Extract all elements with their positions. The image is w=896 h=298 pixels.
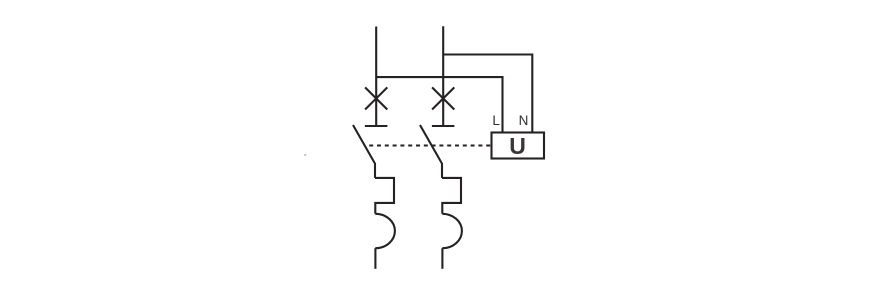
magnetic release coil pole 2 [442, 214, 462, 248]
wire: branch from pole 2 to N terminal of U [443, 55, 532, 133]
wire: pole 2 bottom lead [441, 248, 443, 269]
mechanical linkage (dashed) [369, 144, 491, 146]
wire: pole 1 supply line [375, 27, 377, 127]
svg-text:L: L [492, 113, 500, 128]
wire: pole 1 bottom lead [374, 248, 376, 269]
thermal release pole 1 [375, 178, 394, 214]
switch lever pole 2 [420, 125, 442, 178]
fixed contact terminal pole 2 [432, 125, 455, 127]
stray mark [304, 154, 306, 156]
switch lever pole 1 [353, 125, 375, 178]
wire: branch from pole 1 to L terminal of U [376, 77, 502, 132]
svg-text:U: U [509, 133, 526, 159]
breaker contact cross pole 1 [365, 87, 387, 109]
undervoltage release box U [492, 133, 545, 159]
thermal release pole 2 [442, 178, 461, 214]
breaker contact cross pole 2 [432, 87, 454, 109]
magnetic release coil pole 1 [375, 214, 395, 248]
svg-text:N: N [519, 113, 529, 128]
fixed contact terminal pole 1 [365, 125, 388, 127]
wire: pole 2 supply line [442, 26, 444, 126]
